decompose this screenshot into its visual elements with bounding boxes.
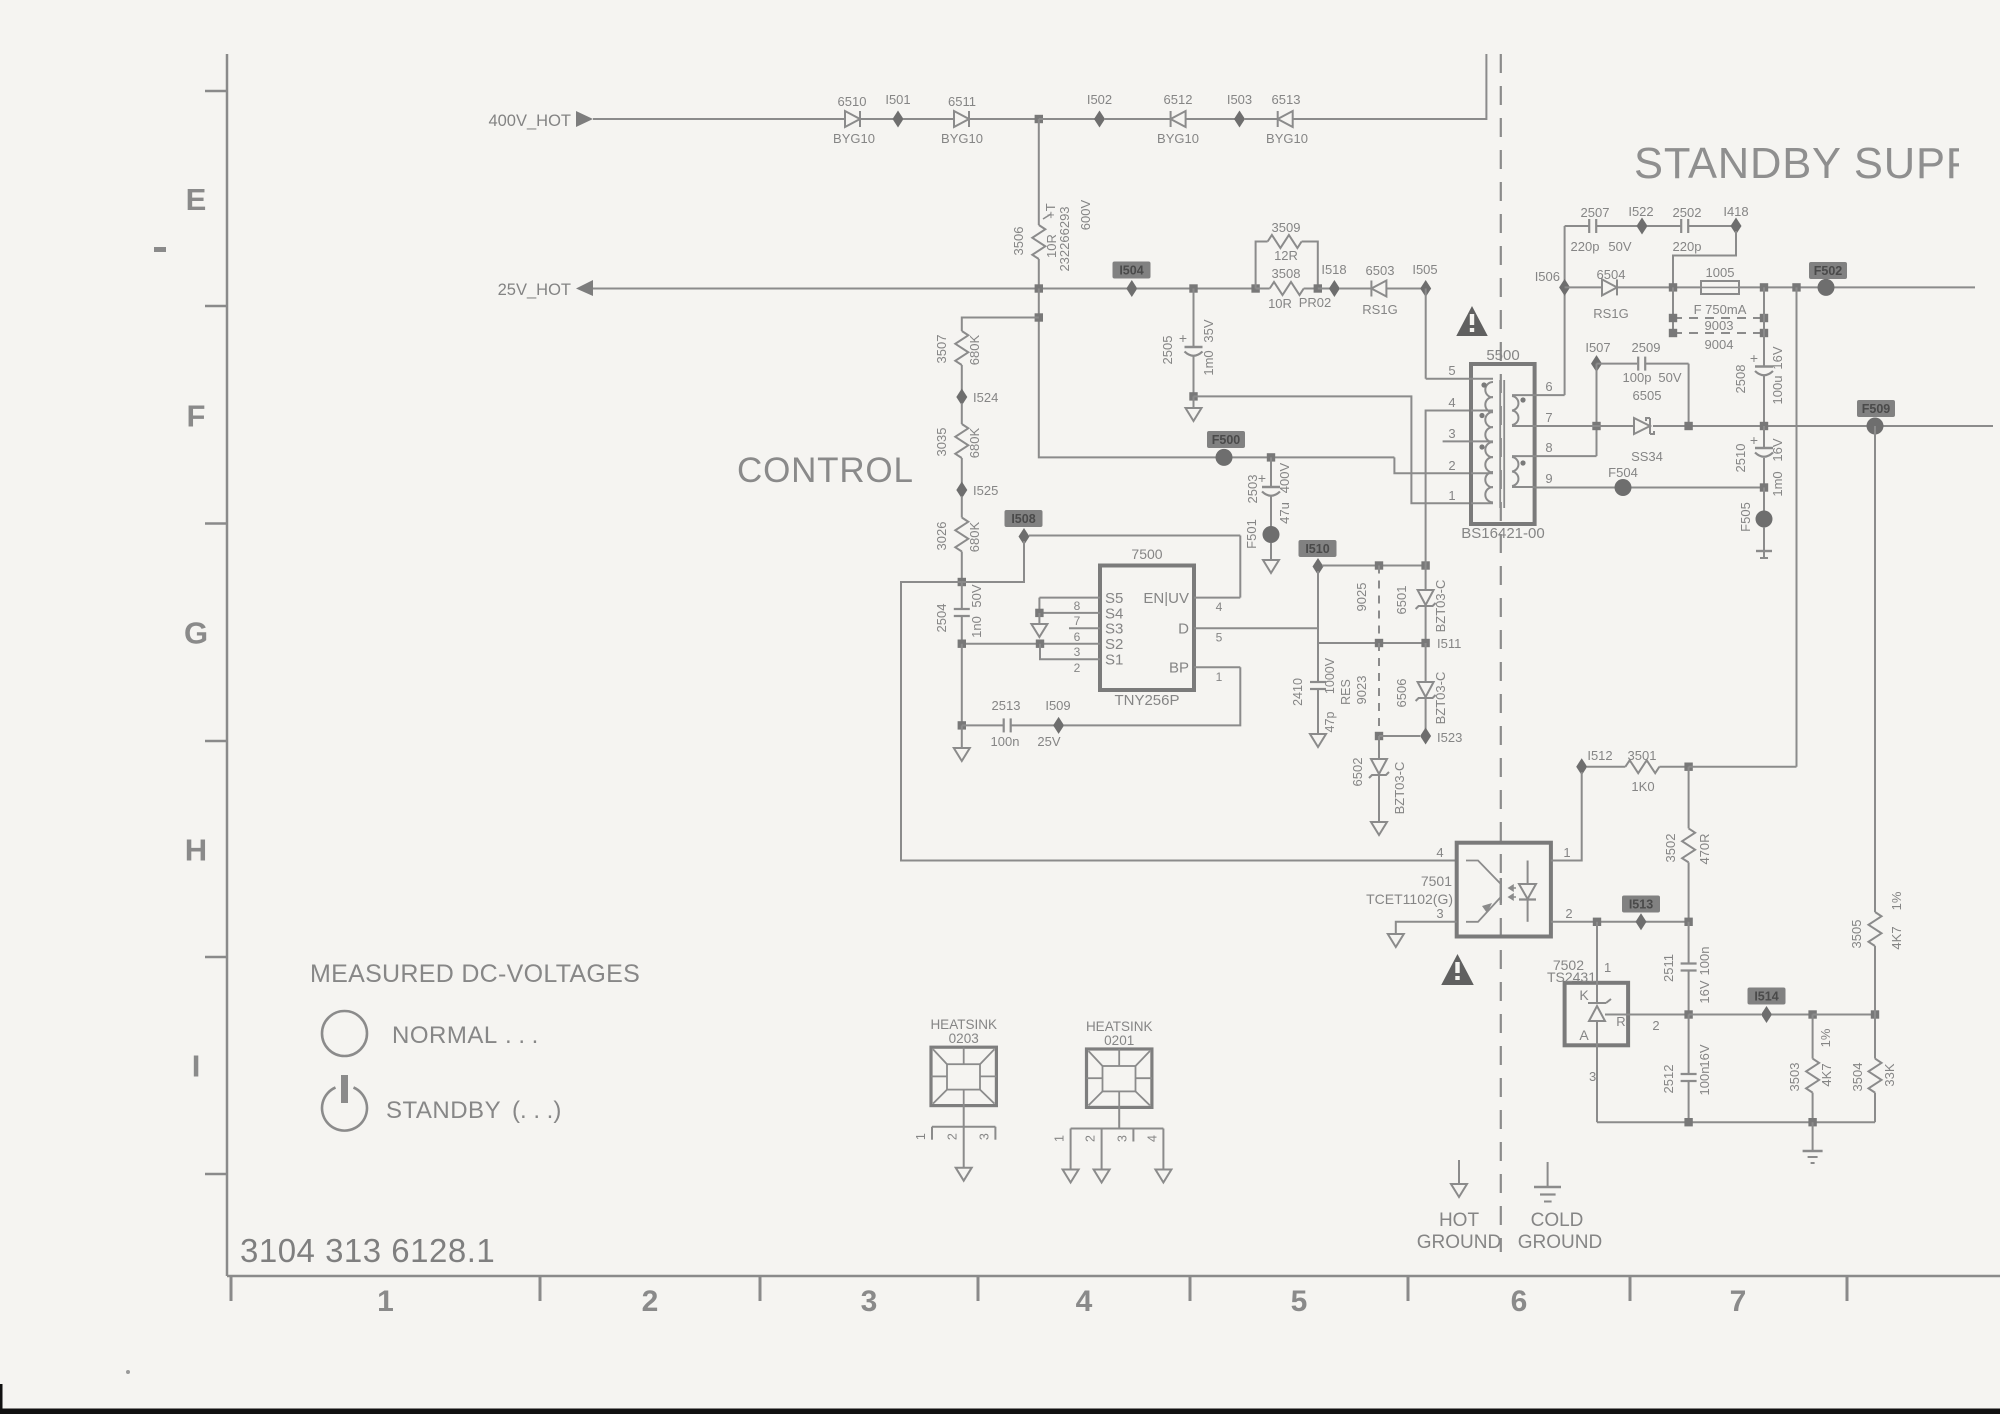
net label I510 xyxy=(1299,540,1337,575)
svg-text:RS1G: RS1G xyxy=(1593,306,1628,321)
capacitor 2505 1m0 35V xyxy=(1160,289,1216,397)
svg-text:I512: I512 xyxy=(1587,748,1612,763)
diode 6503 RS1G xyxy=(1362,263,1397,317)
svg-text:33K: 33K xyxy=(1882,1063,1897,1086)
svg-text:I: I xyxy=(192,1049,201,1084)
net label I513 xyxy=(1622,896,1660,931)
wire 6503 to I505 xyxy=(1386,288,1421,290)
svg-text:MEASURED DC-VOLTAGES: MEASURED DC-VOLTAGES xyxy=(310,960,640,988)
ic pin S2 xyxy=(962,636,1124,659)
svg-text:680K: 680K xyxy=(967,334,982,365)
scan edge left sliver xyxy=(0,1384,3,1410)
junction 1K0 riser top xyxy=(1792,283,1800,291)
svg-text:F 750mA: F 750mA xyxy=(1694,302,1747,317)
wire I418 jog down to fuse node xyxy=(1673,231,1736,287)
svg-text:BYG10: BYG10 xyxy=(941,131,983,146)
svg-text:CONTROL: CONTROL xyxy=(737,451,914,490)
junction 3508 right xyxy=(1314,284,1322,292)
svg-text:3509: 3509 xyxy=(1272,220,1301,235)
svg-text:2505: 2505 xyxy=(1160,336,1175,365)
svg-text:I522: I522 xyxy=(1628,204,1653,219)
svg-text:4: 4 xyxy=(1145,1135,1159,1142)
capacitor 2504 1n0 50V xyxy=(934,582,984,644)
svg-text:+T: +T xyxy=(1043,203,1058,219)
svg-text:F: F xyxy=(187,399,206,434)
legend standby power symbol xyxy=(322,1075,367,1131)
svg-text:4: 4 xyxy=(1448,395,1455,410)
node I518 xyxy=(1321,262,1346,297)
svg-text:BYG10: BYG10 xyxy=(1157,131,1199,146)
node I501 xyxy=(885,92,910,128)
net label F500 xyxy=(1207,431,1245,466)
transformer pin 4 xyxy=(1448,395,1493,411)
wire to I518 xyxy=(1318,288,1330,290)
svg-text:E: E xyxy=(186,182,207,217)
wire 3503 to 3504 column xyxy=(1813,1014,1875,1016)
bottom bus wire xyxy=(1597,1121,1875,1123)
wire I514 to 3503 xyxy=(1772,1014,1813,1016)
svg-text:BZT03-C: BZT03-C xyxy=(1433,580,1448,633)
wire EN riser xyxy=(1239,536,1241,598)
svg-text:25V_HOT: 25V_HOT xyxy=(498,281,571,299)
resistor 3503 4K7 1% xyxy=(1787,1015,1834,1123)
junction 2505 top xyxy=(1189,284,1197,292)
net label I504 xyxy=(1113,262,1151,298)
svg-text:I513: I513 xyxy=(1629,898,1653,912)
node I503 xyxy=(1227,92,1252,128)
svg-text:2502: 2502 xyxy=(1673,205,1702,220)
svg-text:6506: 6506 xyxy=(1394,679,1409,708)
svg-text:25V: 25V xyxy=(1037,734,1060,749)
wire junction to I502 xyxy=(1039,118,1095,120)
svg-text:3502: 3502 xyxy=(1663,834,1678,863)
wire 6513 to top right corner xyxy=(1293,54,1487,119)
junction pin7 line crossing xyxy=(1592,422,1600,430)
svg-text:A: A xyxy=(1579,1027,1589,1043)
net label I514 xyxy=(1748,988,1786,1024)
svg-text:2410: 2410 xyxy=(1291,678,1305,706)
svg-text:S3: S3 xyxy=(1105,621,1123,638)
wire 400V_HOT to diode 6510 xyxy=(593,118,845,120)
wire I510 to 6501 top xyxy=(1322,565,1426,567)
svg-text:I502: I502 xyxy=(1087,92,1112,107)
wire 400V junction down to resistor 3506 xyxy=(1038,119,1040,225)
svg-text:1000V: 1000V xyxy=(1323,657,1337,694)
wire 6505 to F509 xyxy=(1653,425,1993,427)
svg-text:4K7: 4K7 xyxy=(1889,926,1904,949)
ic pin S4 xyxy=(1039,605,1123,628)
svg-text:7501: 7501 xyxy=(1421,873,1452,889)
svg-text:F509: F509 xyxy=(1862,402,1891,416)
svg-text:0203: 0203 xyxy=(949,1031,979,1046)
ic U7500 TNY256P box xyxy=(1100,546,1194,709)
junction 3507 branch xyxy=(1035,313,1043,321)
svg-text:TCET1102(G): TCET1102(G) xyxy=(1366,891,1453,907)
junction 3503 bottom xyxy=(1808,1118,1816,1126)
svg-text:1m0: 1m0 xyxy=(1201,350,1216,375)
svg-text:2504: 2504 xyxy=(934,604,949,633)
wire I505 down to transformer pin5 xyxy=(1425,289,1427,379)
resistor 3507 680K xyxy=(934,331,982,391)
resistor 3504 33K xyxy=(1850,1015,1897,1123)
svg-text:I523: I523 xyxy=(1437,730,1462,745)
svg-text:SS34: SS34 xyxy=(1631,449,1663,464)
bottom ruler ticks xyxy=(231,1276,1847,1301)
svg-text:9025: 9025 xyxy=(1354,583,1369,612)
svg-text:I504: I504 xyxy=(1119,264,1143,278)
svg-text:1%: 1% xyxy=(1818,1028,1833,1047)
svg-text:6513: 6513 xyxy=(1272,92,1301,107)
svg-text:50V: 50V xyxy=(1608,239,1631,254)
svg-text:6: 6 xyxy=(1511,1285,1528,1318)
heatsink 0201 xyxy=(1053,1019,1172,1183)
svg-text:2: 2 xyxy=(1652,1018,1659,1033)
diode 6510 BYG10 xyxy=(833,94,875,146)
wire 2508 column upper xyxy=(1763,287,1765,365)
wire 25V_HOT main xyxy=(593,288,1127,290)
wire transformer pin9 to 2510 xyxy=(1535,487,1764,489)
svg-text:680K: 680K xyxy=(967,521,982,552)
svg-text:6502: 6502 xyxy=(1350,758,1365,787)
wire I524 to 3035 xyxy=(961,403,963,424)
junction 2503 top xyxy=(1267,453,1275,461)
diode 6511 BYG10 xyxy=(941,94,983,146)
capacitor 2410 47p 1000V RES xyxy=(1291,643,1353,734)
paper speck xyxy=(126,1370,130,1374)
junction 2505 bottom xyxy=(1189,392,1197,400)
transformer pin 7 xyxy=(1512,410,1553,426)
wire 3026 node to opto pin4 (left loop) xyxy=(901,582,1457,861)
svg-text:6: 6 xyxy=(1545,379,1552,394)
transformer pin 9 xyxy=(1512,471,1553,487)
svg-text:3: 3 xyxy=(1448,426,1455,441)
zener 6506 BZT03-C xyxy=(1394,643,1448,731)
svg-text:3508: 3508 xyxy=(1272,266,1301,281)
svg-text:16V: 16V xyxy=(1697,980,1712,1003)
svg-text:100p: 100p xyxy=(1623,370,1652,385)
junction 9023 bottom xyxy=(1375,732,1383,740)
svg-text:(. . .): (. . .) xyxy=(512,1097,561,1124)
svg-text:6501: 6501 xyxy=(1394,586,1409,615)
ic pin S3 (nc stub) xyxy=(1069,621,1123,645)
svg-text:8: 8 xyxy=(1074,599,1081,613)
junction 25V/3506 xyxy=(1035,284,1043,292)
svg-text:1K0: 1K0 xyxy=(1631,779,1654,794)
arrow ground below 2513 node xyxy=(954,725,970,761)
svg-text:0201: 0201 xyxy=(1104,1033,1134,1048)
svg-text:8: 8 xyxy=(1545,440,1552,455)
svg-text:EN|UV: EN|UV xyxy=(1143,590,1189,607)
cold ground under bus xyxy=(1803,1122,1823,1163)
wire pin7 to 6505 xyxy=(1535,425,1634,427)
svg-text:1: 1 xyxy=(377,1285,394,1318)
wire S5-S4 tie xyxy=(1038,598,1040,613)
svg-text:4: 4 xyxy=(1436,845,1443,860)
net label F502 xyxy=(1809,262,1847,296)
svg-text:9004: 9004 xyxy=(1705,337,1734,352)
svg-text:1005: 1005 xyxy=(1706,265,1735,280)
warning triangle lower xyxy=(1441,954,1474,985)
border frame bottom line xyxy=(227,1275,2000,1278)
svg-text:I506: I506 xyxy=(1535,269,1560,284)
junction 2510 bottom xyxy=(1760,483,1768,491)
node I505 xyxy=(1412,262,1437,297)
ic pin EN|UV xyxy=(1143,590,1240,614)
svg-text:6510: 6510 xyxy=(838,94,867,109)
svg-text:10R: 10R xyxy=(1268,296,1292,311)
svg-text:3: 3 xyxy=(1589,1069,1596,1084)
svg-text:3506: 3506 xyxy=(1011,227,1026,256)
junction fuse left xyxy=(1669,283,1677,291)
node I507 xyxy=(1585,340,1610,372)
svg-text:TS2431: TS2431 xyxy=(1547,969,1596,985)
svg-text:6: 6 xyxy=(1074,630,1081,644)
wire I507 riser to pin8 xyxy=(1596,364,1598,457)
svg-text:3507: 3507 xyxy=(934,335,949,364)
svg-text:I511: I511 xyxy=(1437,636,1461,651)
opto pin 1 wire xyxy=(1551,772,1582,861)
wire I518 to 6503 xyxy=(1339,288,1371,290)
svg-text:400V: 400V xyxy=(1277,462,1292,493)
svg-text:BP: BP xyxy=(1169,660,1189,677)
capacitor 2507 220p 50V xyxy=(1565,205,1637,254)
wire I509 to BP riser xyxy=(1064,667,1241,725)
junction 9023 mid xyxy=(1375,639,1383,647)
svg-text:STANDBY SUPPLY: STANDBY SUPPLY xyxy=(1634,140,2000,188)
junction 2508 top xyxy=(1760,283,1768,291)
svg-text:3104 313 6128.1: 3104 313 6128.1 xyxy=(240,1232,495,1269)
transformer 5500 BS16421-00 box xyxy=(1461,347,1544,542)
resistor 3026 680K xyxy=(934,518,982,583)
wire fuse to right xyxy=(1739,286,1975,288)
svg-text:RES: RES xyxy=(1339,679,1353,705)
svg-text:7: 7 xyxy=(1074,614,1081,628)
svg-text:1: 1 xyxy=(1604,960,1611,975)
svg-text:BZT03-C: BZT03-C xyxy=(1392,762,1407,815)
TS2431 pin1 riser xyxy=(1597,922,1611,1003)
svg-text:2: 2 xyxy=(1565,906,1572,921)
junction 2504 bottom xyxy=(958,640,966,648)
node I522 xyxy=(1628,204,1653,235)
svg-text:9: 9 xyxy=(1545,471,1552,486)
wire pin2 line to I514 xyxy=(1689,1014,1761,1016)
svg-text:PR02: PR02 xyxy=(1299,295,1332,310)
svg-text:7500: 7500 xyxy=(1131,546,1162,562)
junction 2513 left xyxy=(958,721,966,729)
node I509 xyxy=(1045,698,1070,734)
wire 6504 to fuse xyxy=(1617,286,1701,288)
svg-text:F500: F500 xyxy=(1212,433,1241,447)
svg-text:GROUND: GROUND xyxy=(1417,1232,1501,1253)
junction 2511 top xyxy=(1684,918,1692,926)
diode 6512 BYG10 xyxy=(1157,92,1199,146)
node I511 xyxy=(1421,636,1461,651)
svg-text:3035: 3035 xyxy=(934,428,949,457)
cold ground symbol xyxy=(1534,1162,1561,1202)
svg-text:3026: 3026 xyxy=(934,522,949,551)
wire F502 riser down to 1K0 node xyxy=(1796,287,1798,766)
winding dots primary xyxy=(1481,382,1486,387)
svg-text:BYG10: BYG10 xyxy=(1266,131,1308,146)
svg-text:47p: 47p xyxy=(1323,712,1337,733)
arrow under 6502 xyxy=(1371,822,1387,835)
svg-text:I501: I501 xyxy=(885,92,910,107)
svg-text:NORMAL: NORMAL xyxy=(392,1022,498,1049)
wire transformer pin4 to 6501 column xyxy=(1426,411,1471,566)
svg-text:6505: 6505 xyxy=(1633,388,1662,403)
hot/cold separator dashed line xyxy=(1500,54,1502,1252)
svg-text:7: 7 xyxy=(1730,1285,1747,1318)
junction S4 tie xyxy=(1035,609,1043,617)
svg-text:2512: 2512 xyxy=(1661,1065,1676,1094)
resistor 3505 4K7 1% xyxy=(1849,891,1904,1014)
svg-text:I505: I505 xyxy=(1412,262,1437,277)
svg-text:400V_HOT: 400V_HOT xyxy=(488,112,571,130)
svg-text:HOT: HOT xyxy=(1439,1210,1480,1231)
svg-text:470R: 470R xyxy=(1697,833,1712,864)
capacitor 2502 220p xyxy=(1647,205,1731,254)
node I512 xyxy=(1576,748,1612,775)
opto pin 3 wire xyxy=(1396,906,1457,934)
svg-text:1: 1 xyxy=(914,1133,928,1140)
opto phototransistor xyxy=(1466,861,1501,922)
wire I506 to 6504 xyxy=(1565,286,1602,288)
junction S2/S1 xyxy=(1036,640,1044,648)
optocoupler 7501 TCET1102(G) box xyxy=(1366,843,1551,937)
node F505 xyxy=(1738,488,1773,532)
svg-text:16V: 16V xyxy=(1697,1044,1712,1067)
svg-text:1m0: 1m0 xyxy=(1770,471,1785,496)
capacitor 2512 100n 16V xyxy=(1661,1015,1712,1123)
border frame left ruler line xyxy=(226,54,229,1276)
svg-text:3: 3 xyxy=(1074,645,1081,659)
wire 2504 node down to 2513 line xyxy=(961,644,963,726)
svg-text:3: 3 xyxy=(861,1285,878,1318)
transformer pin 8 xyxy=(1512,440,1553,456)
node I525 xyxy=(956,482,998,499)
wire I525 to 3026 xyxy=(961,496,963,518)
wire I503 to 6513 xyxy=(1244,118,1278,120)
wire I504 to 2505 junction xyxy=(1137,288,1256,290)
svg-text:2: 2 xyxy=(642,1285,659,1318)
dashed link 9023 xyxy=(1354,643,1379,736)
svg-text:2: 2 xyxy=(1084,1135,1098,1142)
resistor 3035 680K xyxy=(934,424,982,484)
svg-text:COLD: COLD xyxy=(1531,1210,1584,1231)
ic pin S5 xyxy=(1039,590,1123,613)
svg-text:+: + xyxy=(1179,330,1187,346)
svg-text:232266293: 232266293 xyxy=(1057,206,1072,271)
junction 3026 bottom node xyxy=(958,578,966,586)
svg-text:+: + xyxy=(1750,432,1758,448)
dashed link 9025 xyxy=(1354,566,1379,644)
svg-text:. . .: . . . xyxy=(505,1022,538,1049)
svg-text:2511: 2511 xyxy=(1661,954,1676,982)
svg-text:I518: I518 xyxy=(1321,262,1346,277)
svg-text:3505: 3505 xyxy=(1849,920,1864,949)
diode 6504 RS1G xyxy=(1593,267,1628,321)
diode 6505 SS34 schottky xyxy=(1631,388,1663,464)
node I418 xyxy=(1723,204,1748,235)
svg-text:TNY256P: TNY256P xyxy=(1114,692,1179,709)
hot ground symbol xyxy=(1451,1160,1467,1197)
svg-text:6504: 6504 xyxy=(1597,267,1626,282)
svg-text:I503: I503 xyxy=(1227,92,1252,107)
resistor 3509 12R (parallel above) xyxy=(1256,220,1318,289)
svg-text:BS16421-00: BS16421-00 xyxy=(1461,525,1544,542)
node F501 xyxy=(1244,519,1280,549)
arrow under opto pin3 xyxy=(1388,934,1404,947)
svg-text:K: K xyxy=(1579,987,1589,1003)
svg-text:H: H xyxy=(185,833,207,868)
legend normal circle xyxy=(322,1011,367,1056)
wire 6511 to junction xyxy=(969,118,1039,120)
warning triangle upper xyxy=(1456,306,1488,336)
TS2431 pin 3 wire xyxy=(1589,1045,1597,1122)
TS2431 internals (zener) xyxy=(1579,987,1628,1045)
junction 2511/2512 xyxy=(1684,1010,1692,1018)
resistor 3508 10R (on line) xyxy=(1256,266,1332,311)
svg-text:STANDBY: STANDBY xyxy=(386,1097,501,1124)
svg-text:4: 4 xyxy=(1216,600,1223,614)
capacitor 2513 100n 25V xyxy=(962,698,1061,749)
small mark left margin xyxy=(154,247,166,252)
diode 6513 BYG10 xyxy=(1266,92,1308,146)
ic pin S1 xyxy=(1040,644,1123,675)
junction 3502 top xyxy=(1684,763,1692,771)
svg-text:1: 1 xyxy=(1216,670,1223,684)
transformer core lines xyxy=(1499,380,1501,508)
wire I501 to 6511 xyxy=(903,118,954,120)
svg-text:HEATSINK: HEATSINK xyxy=(930,1017,997,1032)
wire 6512 to I503 xyxy=(1186,118,1235,120)
net label I508 xyxy=(1005,510,1043,545)
svg-text:+: + xyxy=(1750,350,1758,366)
svg-text:F504: F504 xyxy=(1608,465,1638,480)
svg-text:D: D xyxy=(1178,621,1189,638)
transformer primary winding xyxy=(1485,382,1493,502)
svg-text:5: 5 xyxy=(1291,1285,1308,1318)
scan edge bottom bar xyxy=(0,1409,2000,1414)
wire F500 to transformer pin2 xyxy=(1394,457,1471,473)
transformer pin 6 xyxy=(1512,379,1565,395)
svg-text:9003: 9003 xyxy=(1705,318,1734,333)
svg-text:3504: 3504 xyxy=(1850,1063,1865,1092)
wire I508 down to 3026 node xyxy=(962,541,1024,582)
capacitor 2503 47u 400V xyxy=(1245,457,1292,527)
node I506 xyxy=(1535,269,1570,296)
wire 2505 bottom to transformer pin1 xyxy=(1194,396,1472,503)
svg-text:3: 3 xyxy=(1115,1135,1129,1142)
svg-text:3501: 3501 xyxy=(1628,748,1657,763)
svg-text:600V: 600V xyxy=(1078,199,1093,230)
svg-text:1: 1 xyxy=(1448,488,1455,503)
svg-text:5: 5 xyxy=(1216,631,1223,645)
wire 2410 line to I511 xyxy=(1318,642,1426,644)
junction 3505/3504 node xyxy=(1871,1010,1879,1018)
svg-text:1: 1 xyxy=(1053,1135,1067,1142)
arrow under F501 xyxy=(1263,543,1279,573)
svg-text:1: 1 xyxy=(1563,845,1570,860)
transformer pin 3 stub xyxy=(1443,426,1493,441)
wire 6510 to I501 xyxy=(860,118,893,120)
resistor 3501 1K0 xyxy=(1587,748,1689,794)
svg-text:R: R xyxy=(1616,1014,1625,1029)
left ruler ticks xyxy=(205,91,227,1174)
node F504 xyxy=(1608,465,1638,496)
wire F509 riser down to 3505 xyxy=(1874,426,1876,912)
transformer pin 1 xyxy=(1448,488,1493,503)
